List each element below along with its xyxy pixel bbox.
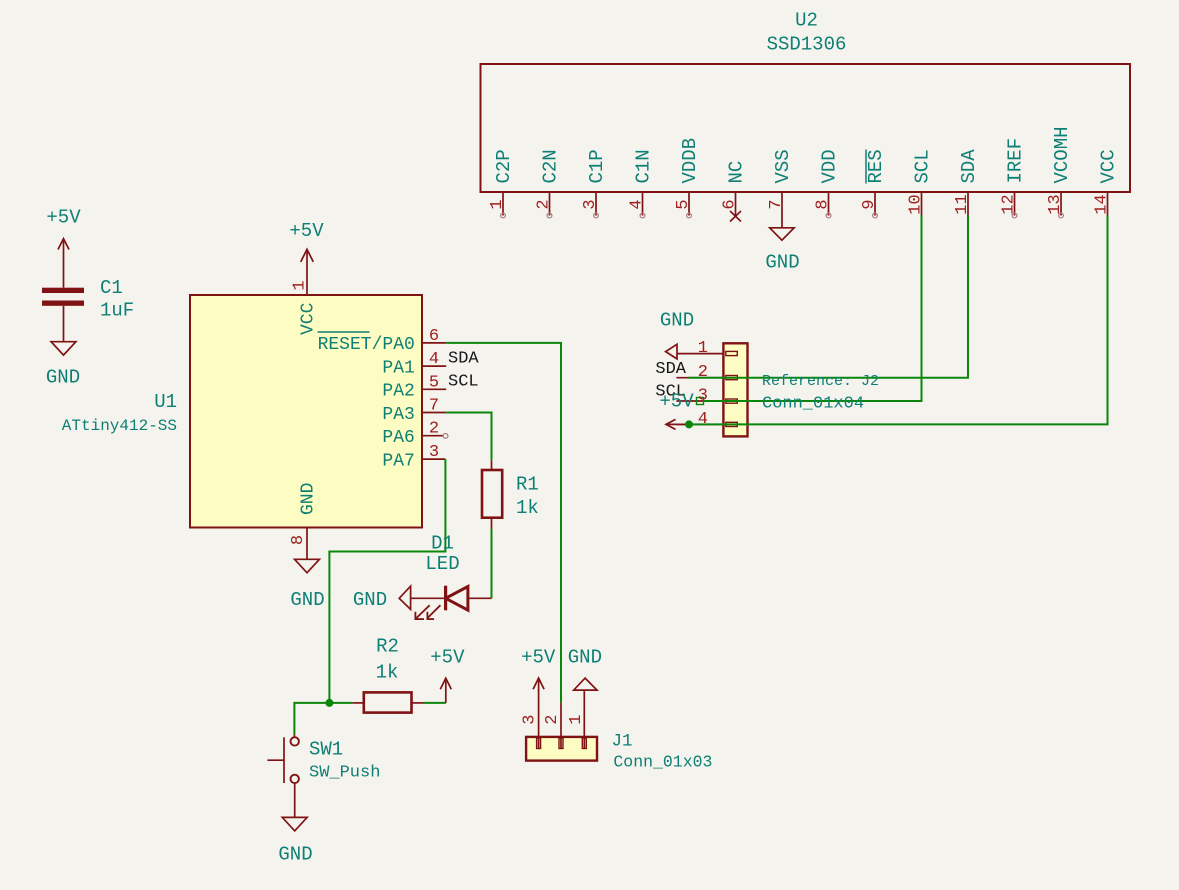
J1 pin 3 with +5V <box>521 647 556 749</box>
svg-text:SCL: SCL <box>448 373 479 392</box>
LED D1 <box>411 586 492 619</box>
U1 pin 8 GND bottom <box>289 483 319 550</box>
svg-text:C2P: C2P <box>493 149 515 183</box>
svg-text:3: 3 <box>698 387 708 406</box>
svg-text:J1: J1 <box>612 732 633 752</box>
svg-text:SSD1306: SSD1306 <box>767 34 847 56</box>
svg-text:VCC: VCC <box>1098 149 1120 183</box>
U2 pin 14 VCC <box>1093 149 1120 215</box>
U2 pin 13 VCOMH <box>1046 126 1073 217</box>
svg-text:4: 4 <box>698 410 708 429</box>
svg-text:U2: U2 <box>795 10 818 32</box>
wire SDA net from U2 pin 11 down and left to J2 <box>689 216 969 378</box>
junction node at switch / R2 <box>325 699 333 707</box>
U2 pin 10 SCL <box>907 149 934 215</box>
svg-text:VDD: VDD <box>819 149 841 183</box>
J1 pin 1 with GND <box>567 647 602 749</box>
svg-text:+5V: +5V <box>289 220 324 242</box>
capacitor C1 <box>42 288 84 342</box>
svg-text:SDA: SDA <box>448 349 479 368</box>
wire SCL net from U2 pin 10 down and left to J2 <box>697 216 922 405</box>
U1 pin 2 PA6 unconnected <box>382 420 448 448</box>
svg-text:5: 5 <box>674 199 693 209</box>
svg-text:VSS: VSS <box>772 149 794 183</box>
svg-text:PA3: PA3 <box>382 405 414 425</box>
svg-text:6: 6 <box>429 327 439 346</box>
op-amp U2 body <box>481 64 1131 192</box>
ground symbol below SW1 <box>278 817 312 865</box>
svg-text:IREF: IREF <box>1005 138 1027 184</box>
svg-text:PA2: PA2 <box>382 382 414 402</box>
svg-text:SCL: SCL <box>912 149 934 183</box>
ground symbol below C1 <box>46 342 80 389</box>
U1 pin 4 PA1 <box>382 350 446 378</box>
+5V power symbol right of R2 <box>430 647 465 703</box>
svg-text:+5V: +5V <box>521 647 556 669</box>
svg-text:GND: GND <box>278 844 312 866</box>
svg-text:14: 14 <box>1093 194 1112 214</box>
U2 pin 1 C2P <box>488 149 515 218</box>
U1 pin 6 RESET/PA0 <box>318 327 447 355</box>
U1 pin 5 PA2 <box>382 373 446 401</box>
wire PA3 net from U1 pin 7 to R1 <box>446 413 491 461</box>
svg-text:2: 2 <box>429 420 439 439</box>
svg-text:RESET/PA0: RESET/PA0 <box>318 335 415 355</box>
svg-text:LED: LED <box>425 553 459 575</box>
svg-text:C2N: C2N <box>540 149 562 183</box>
svg-text:+5V: +5V <box>659 391 694 413</box>
svg-text:GND: GND <box>290 589 324 611</box>
junction at J2 pin 4 <box>685 420 693 428</box>
U2 pin 12 IREF <box>1000 138 1027 218</box>
svg-text:+5V: +5V <box>46 207 81 229</box>
svg-text:VCOMH: VCOMH <box>1051 126 1073 183</box>
wire from junction to SW1 <box>294 703 329 735</box>
svg-text:C1: C1 <box>100 277 123 299</box>
U2 pin 9 RES with overline <box>860 149 887 218</box>
svg-text:1uF: 1uF <box>100 300 134 322</box>
svg-text:GND: GND <box>46 367 80 389</box>
wire from R1 to LED anode <box>491 529 493 598</box>
svg-text:PA1: PA1 <box>382 358 414 378</box>
U1 pin 3 PA7 <box>382 443 445 471</box>
resistor R2 <box>352 692 423 712</box>
svg-text:12: 12 <box>1000 194 1019 214</box>
+5V power symbol above U1 pin 1 <box>289 220 324 274</box>
wire from R2 to +5V <box>423 702 446 704</box>
svg-text:5: 5 <box>429 373 439 392</box>
svg-text:1k: 1k <box>376 661 399 683</box>
svg-text:8: 8 <box>814 199 833 209</box>
svg-text:Conn_01x03: Conn_01x03 <box>613 753 712 772</box>
svg-text:3: 3 <box>521 714 540 724</box>
svg-text:ATtiny412-SS: ATtiny412-SS <box>62 417 177 435</box>
svg-text:R2: R2 <box>376 636 399 658</box>
svg-text:Reference: J2: Reference: J2 <box>762 373 879 390</box>
svg-text:6: 6 <box>721 199 740 209</box>
svg-text:1: 1 <box>291 280 310 290</box>
svg-text:13: 13 <box>1046 194 1065 214</box>
svg-text:GND: GND <box>765 252 799 274</box>
svg-text:2: 2 <box>543 714 562 724</box>
connector J1 body <box>526 737 597 761</box>
microcontroller U1 body <box>190 295 422 528</box>
ground symbol at U2 pin 7 <box>765 228 799 274</box>
svg-text:+5V: +5V <box>430 647 465 669</box>
switch SW1 <box>267 734 299 817</box>
svg-text:4: 4 <box>628 199 647 209</box>
svg-text:3: 3 <box>429 443 439 462</box>
connector J2 body <box>676 343 747 436</box>
U2 pin 3 C1P <box>581 149 608 218</box>
J1 pin 2 <box>543 703 563 749</box>
capacitor C1 top +5V power symbol <box>46 207 81 288</box>
svg-text:GND: GND <box>353 589 387 611</box>
svg-text:1k: 1k <box>516 497 539 519</box>
U2 pin 4 C1N <box>628 149 655 218</box>
svg-text:9: 9 <box>860 199 879 209</box>
svg-text:RES: RES <box>865 149 887 183</box>
+5V power symbol at J2 pin 4 pointing left <box>659 391 694 430</box>
svg-text:U1: U1 <box>154 391 177 413</box>
svg-text:VDDB: VDDB <box>679 138 701 184</box>
U2 pin 2 C2N <box>535 149 562 218</box>
J2 pin 2 <box>698 363 708 382</box>
svg-text:R1: R1 <box>516 473 539 495</box>
svg-text:1: 1 <box>698 339 708 358</box>
ground power symbol at J2 pin 1 <box>660 309 694 359</box>
svg-text:Conn_01x04: Conn_01x04 <box>762 395 864 414</box>
svg-text:GND: GND <box>660 309 694 331</box>
U2 pin 6 NC with no-connect X <box>721 161 748 222</box>
resistor R1 <box>482 460 502 529</box>
J2 pin 4 <box>698 410 708 429</box>
svg-text:GND: GND <box>568 647 602 669</box>
svg-text:1: 1 <box>488 199 507 209</box>
wire +5V net from U2 pin 14 down and left to J2 pin 4 <box>689 216 1108 425</box>
svg-text:7: 7 <box>767 199 786 209</box>
svg-text:10: 10 <box>907 194 926 214</box>
svg-text:3: 3 <box>581 199 600 209</box>
U1 pin 7 PA3 <box>382 397 446 425</box>
svg-text:2: 2 <box>535 199 554 209</box>
svg-text:7: 7 <box>429 397 439 416</box>
svg-text:C1P: C1P <box>586 149 608 183</box>
svg-text:C1N: C1N <box>633 149 655 183</box>
svg-text:SDA: SDA <box>655 360 686 379</box>
U2 pin 11 SDA <box>953 149 980 216</box>
svg-text:11: 11 <box>953 194 972 214</box>
ground symbol below U1 pin 8 <box>290 550 324 612</box>
svg-text:2: 2 <box>698 363 708 382</box>
U2 pin 7 VSS <box>767 149 794 228</box>
J2 pin 3 <box>698 387 708 406</box>
ground symbol at LED cathode <box>353 586 411 611</box>
U2 pin 5 VDDB <box>674 138 701 218</box>
svg-text:PA7: PA7 <box>382 451 414 471</box>
svg-text:SW1: SW1 <box>309 738 343 760</box>
svg-text:PA6: PA6 <box>382 428 414 448</box>
svg-text:SDA: SDA <box>958 149 980 184</box>
J2 pin 1 <box>677 339 723 358</box>
svg-text:1: 1 <box>567 714 586 724</box>
wire PA7 net from U1 pin 3 down to switch junction <box>329 459 445 703</box>
U2 pin 8 VDD <box>814 149 841 218</box>
svg-text:NC: NC <box>726 161 748 184</box>
svg-text:GND: GND <box>299 483 319 515</box>
svg-text:8: 8 <box>289 535 308 545</box>
U1 pin 1 VCC top <box>291 274 319 336</box>
svg-text:4: 4 <box>429 350 439 369</box>
svg-text:SW_Push: SW_Push <box>309 763 380 782</box>
wire RESET/PA0 net from U1 pin 6 to J1 pin 2 <box>446 343 561 703</box>
svg-text:VCC: VCC <box>299 302 319 335</box>
wire from junction to R2 <box>329 702 352 704</box>
svg-text:D1: D1 <box>431 532 454 554</box>
